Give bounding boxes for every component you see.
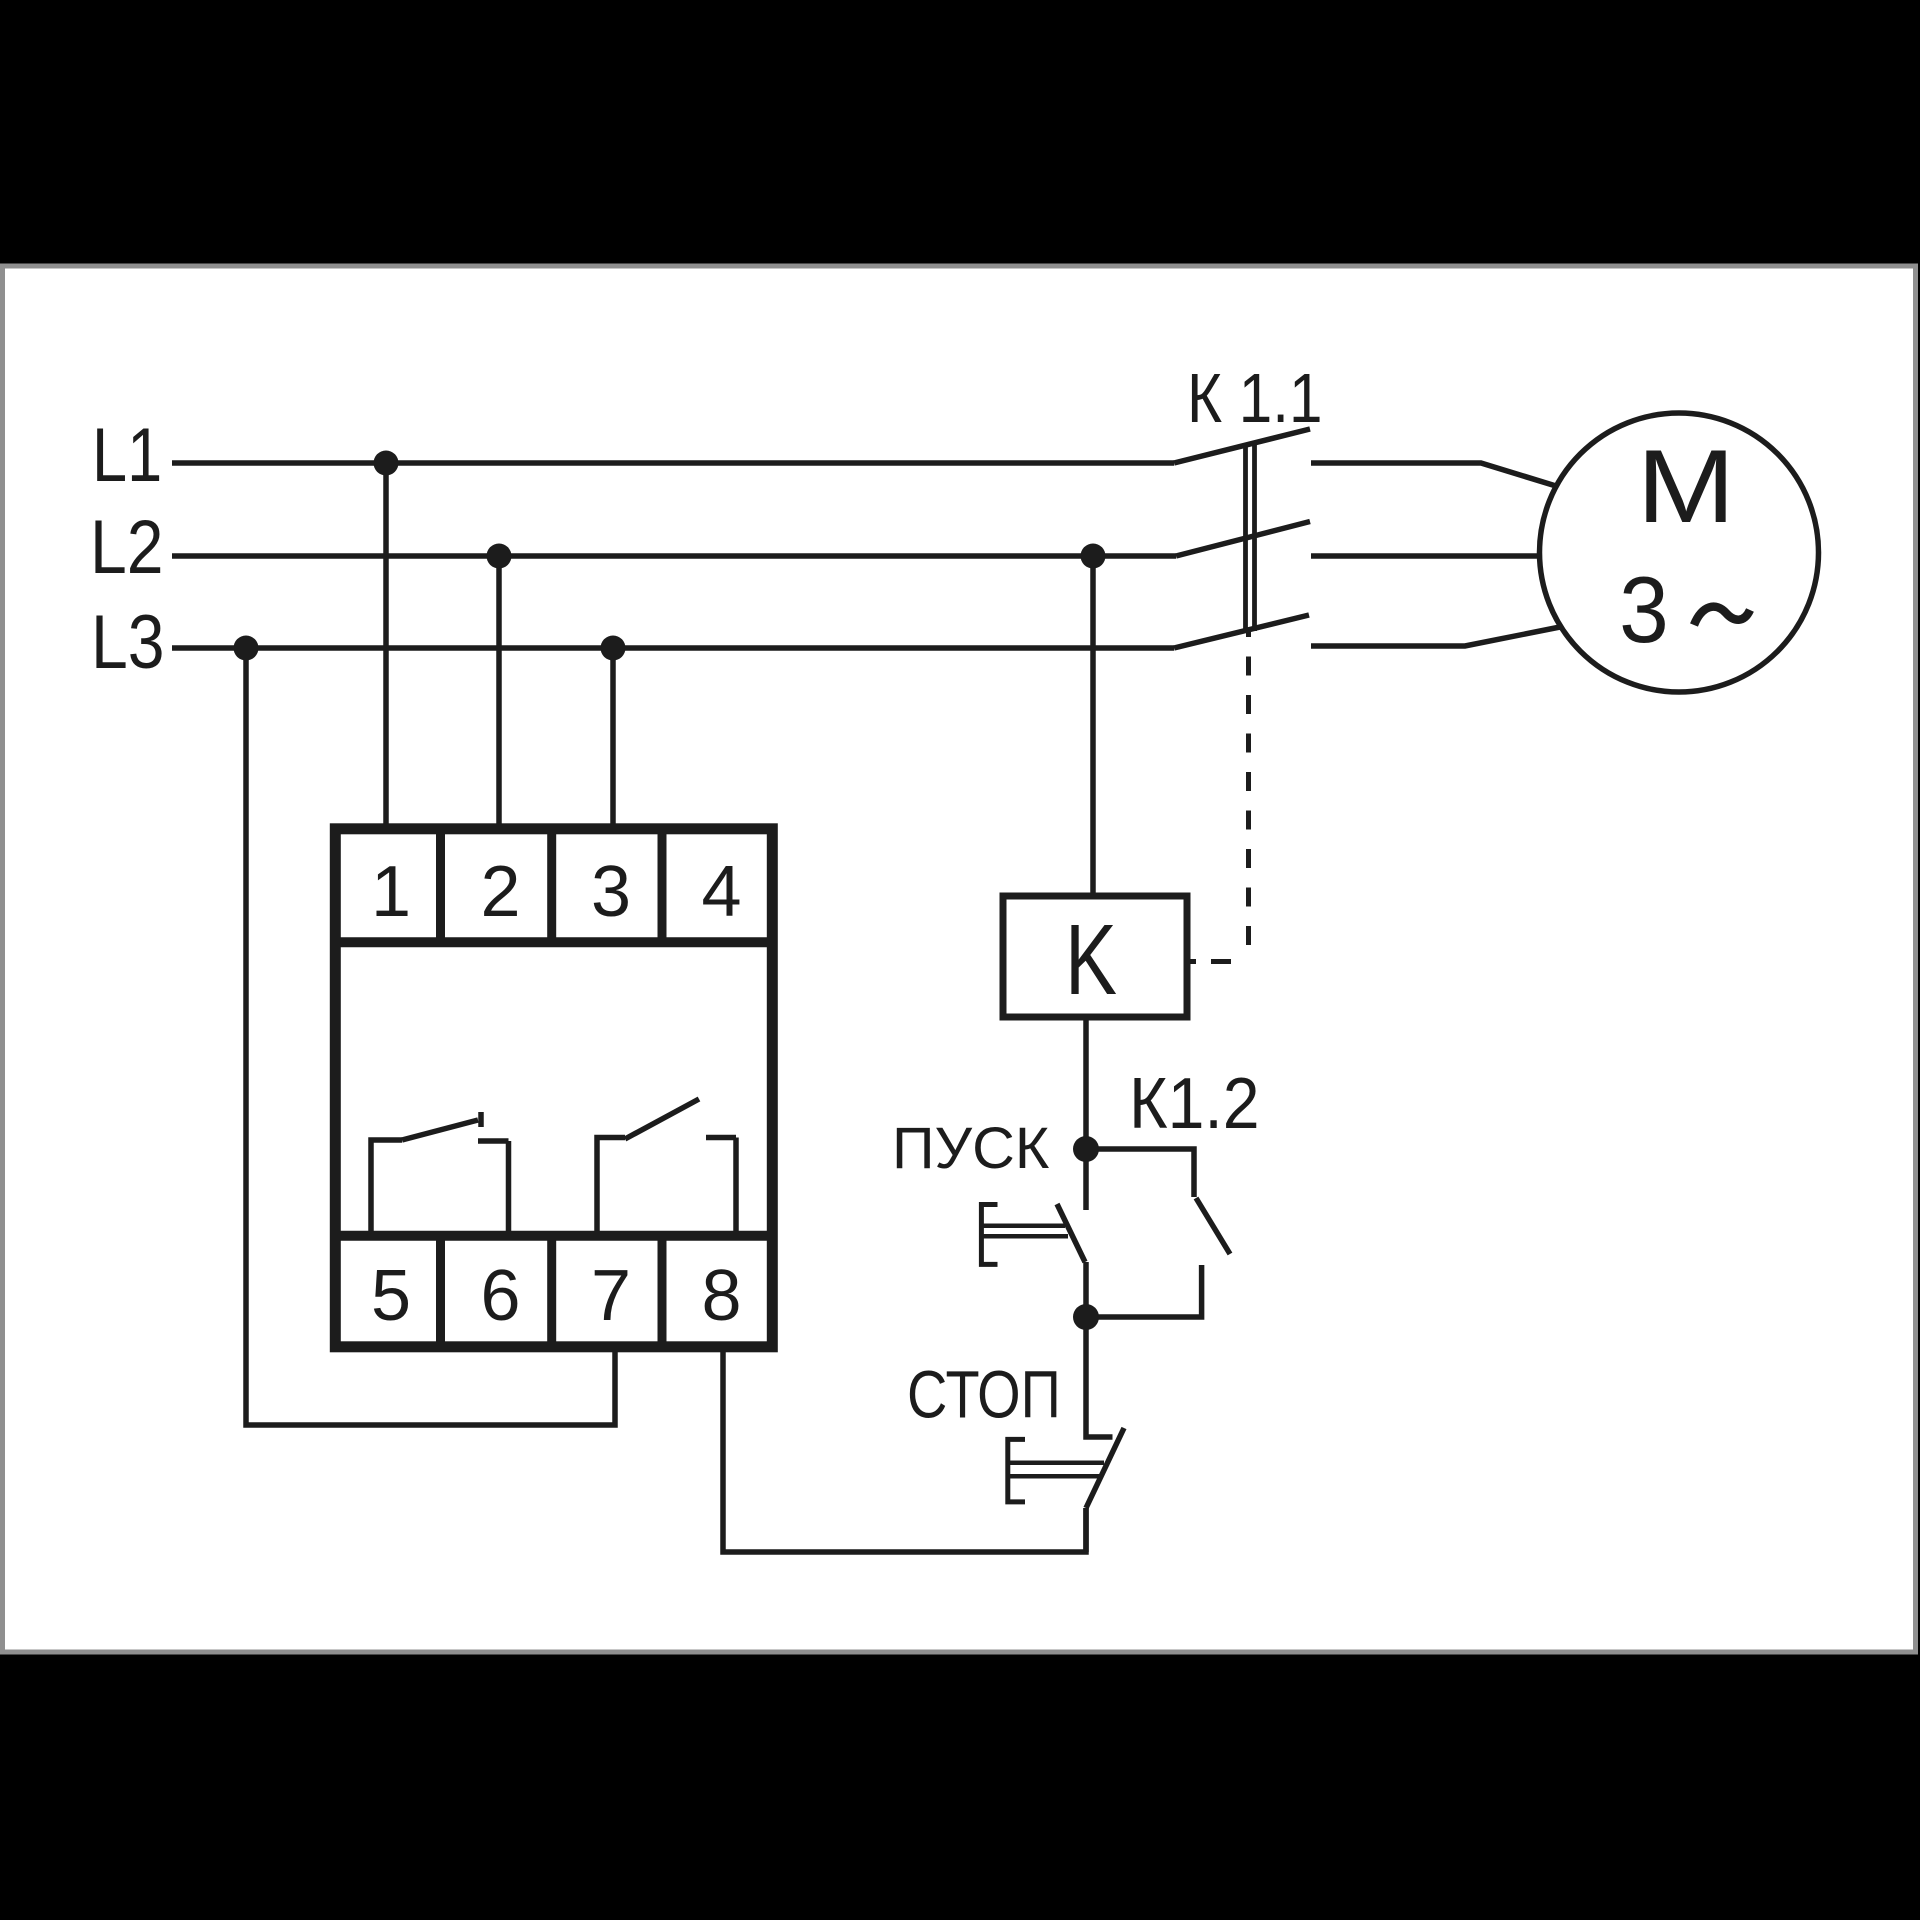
label К 1.1 (1187, 359, 1322, 437)
svg-text:1: 1 (371, 852, 411, 932)
net L2 label (90, 506, 164, 590)
contact K1.1 linkage bars (1246, 444, 1255, 631)
pin 6 (480, 1256, 520, 1336)
svg-text:L1: L1 (92, 412, 162, 497)
pushbutton СТОП (stop, NC) (1008, 1317, 1124, 1552)
junction L3 / terminal 5 branch (234, 636, 259, 661)
pin 7 (591, 1256, 631, 1336)
contact K1.1 pole L3 blade (1174, 615, 1309, 648)
svg-text:L2: L2 (90, 506, 164, 590)
node lower junction (1073, 1304, 1099, 1330)
svg-text:4: 4 (701, 852, 741, 932)
contact K1.1 pole L1 blade (1174, 429, 1310, 463)
mechanical linkage dashed to coil (1246, 632, 1251, 945)
net L1 label (92, 412, 162, 497)
schematic sheet (3, 266, 1916, 1652)
junction L1 / terminal 1 (374, 451, 399, 476)
svg-text:M: M (1637, 428, 1736, 545)
wire L3 around to terminal 7 (246, 648, 615, 1425)
svg-text:3: 3 (1619, 558, 1669, 663)
motor label 3 (1619, 558, 1669, 663)
wire K1.1 to motor lead 3 (1311, 627, 1560, 646)
svg-text:2: 2 (480, 852, 520, 932)
net L1 wire (172, 460, 1174, 466)
net L2 wire (172, 553, 1176, 559)
svg-text:L3: L3 (91, 601, 165, 685)
wire L2 to terminal 2 (496, 556, 502, 834)
relay bottom row separators (441, 1236, 663, 1347)
junction L3 / terminal 3 (601, 636, 626, 661)
junction L2 / coil K branch (1081, 544, 1106, 569)
pin 5 (371, 1256, 411, 1336)
wire coil K to start node (1083, 1017, 1089, 1149)
wire terminal 8 to stop button (723, 1350, 1086, 1552)
contact K1.1 pole L2 blade (1176, 522, 1310, 557)
net L3 wire (172, 645, 1174, 651)
svg-text:7: 7 (591, 1256, 631, 1336)
svg-text:К 1.1: К 1.1 (1187, 359, 1322, 437)
motor letter M (1637, 428, 1736, 545)
wire L3 to terminal 3 (610, 648, 616, 834)
svg-text:5: 5 (371, 1256, 411, 1336)
wire K1.1 to motor lead 1 (1311, 463, 1556, 486)
pin 3 (591, 852, 631, 932)
label СТОП (907, 1358, 1061, 1433)
wire K1.1 to motor lead 2 (1311, 553, 1538, 559)
pin 4 (701, 852, 741, 932)
relay contact 5-6 (371, 1112, 509, 1237)
wire L2 to coil K (1090, 556, 1096, 896)
relay bottom terminal row line (331, 1231, 777, 1241)
pin 2 (480, 852, 520, 932)
pushbutton ПУСК (start, NO) (981, 1149, 1086, 1317)
relay contact 7-8 (597, 1099, 736, 1237)
pin 1 (371, 852, 411, 932)
contactor coil K letter (1065, 905, 1117, 1017)
wire L1 to terminal 1 (383, 463, 389, 834)
label К1.2 (1129, 1062, 1260, 1143)
pin 8 (701, 1256, 741, 1336)
svg-text:6: 6 (480, 1256, 520, 1336)
label ПУСК (892, 1117, 1049, 1181)
relay top terminal row line (331, 937, 777, 947)
motor label ~ (1694, 607, 1750, 625)
node ПУСК junction (1073, 1136, 1099, 1162)
junction L2 / terminal 2 (487, 544, 512, 569)
svg-text:8: 8 (701, 1256, 741, 1336)
contact К1.2 (self-hold) (1086, 1149, 1230, 1317)
contactor coil K box (1003, 896, 1187, 1017)
relay device box (335, 829, 772, 1347)
net L3 label (91, 601, 165, 685)
svg-text:3: 3 (591, 852, 631, 932)
motor M 3~ circle (1540, 413, 1819, 692)
svg-text:K: K (1065, 905, 1117, 1017)
svg-text:СТОП: СТОП (907, 1358, 1061, 1433)
svg-text:ПУСК: ПУСК (892, 1117, 1049, 1181)
svg-text:К1.2: К1.2 (1129, 1062, 1260, 1143)
relay top row separators (441, 829, 663, 942)
